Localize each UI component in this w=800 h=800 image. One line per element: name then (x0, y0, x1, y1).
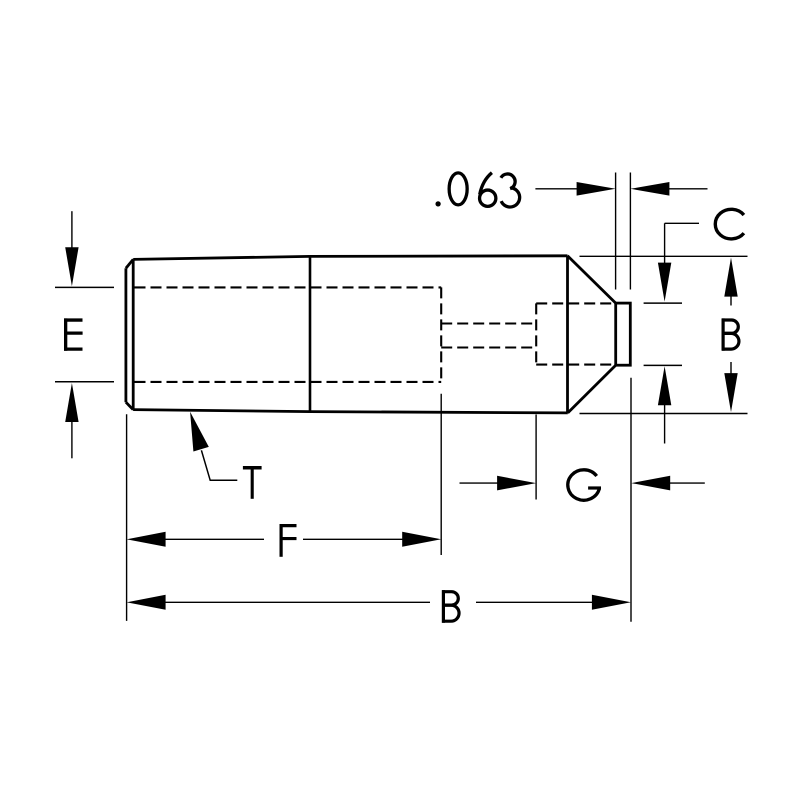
label B bottom stem (442, 590, 445, 623)
label .063 digit 6 bowl (480, 190, 496, 206)
extension line tip right (629, 173, 631, 290)
extension line tip right lower (630, 378, 632, 622)
label E bottom bar (64, 347, 83, 350)
arrowhead B2 right (592, 595, 631, 610)
label G arc (568, 470, 600, 500)
leader C vertical (664, 223, 666, 263)
hidden thread hole end line (440, 287, 442, 382)
tick C bottom (644, 364, 682, 366)
extension line tip left (615, 173, 617, 290)
label .063 digit 6 top stroke (480, 173, 492, 195)
label .063 digit 0 (449, 173, 467, 205)
arrowhead E top (65, 247, 78, 286)
tick E bottom (55, 381, 114, 383)
arrowhead C top (658, 263, 671, 302)
hidden pilot hole bottom line (441, 346, 536, 348)
hidden socket top line (536, 302, 616, 304)
label B bottom bottom bowl (442, 605, 459, 621)
dim line .063 left (535, 188, 577, 190)
dim line B2 left segment (165, 601, 430, 603)
hidden thread hole top line (135, 286, 442, 288)
pin body bottom edge straight segment (310, 412, 568, 413)
hidden thread hole bottom line (135, 381, 442, 383)
pin body bottom-left chamfer (126, 402, 133, 409)
arrowhead T (190, 412, 209, 452)
hidden pilot hole top line (441, 322, 536, 324)
label B bottom top bowl (442, 592, 458, 605)
shaft E bottom (71, 422, 73, 459)
shaft E top (71, 211, 73, 248)
tick C top (644, 302, 682, 304)
arrowhead G left (497, 476, 536, 491)
tip boss rectangle (616, 303, 631, 365)
dim line B2 right segment (476, 601, 593, 603)
arrowhead .063 right (630, 182, 669, 196)
extension line left end (126, 414, 128, 621)
arrowhead E bottom (65, 383, 78, 422)
leader T (201, 450, 237, 480)
hidden socket bottom line (536, 364, 616, 366)
arrowhead B top (724, 258, 737, 297)
arrowhead C bottom (658, 366, 671, 405)
tick E top (55, 286, 114, 288)
arrowhead .063 left (577, 182, 616, 196)
dim line F right segment (303, 538, 403, 540)
shaft B bottom (730, 362, 732, 374)
arrowhead B2 left (127, 595, 166, 610)
dim line G right (670, 482, 705, 484)
shaft B top (730, 297, 732, 306)
extension line socket depth (535, 415, 537, 500)
label T bar (243, 466, 262, 470)
arrowhead F left (127, 532, 166, 547)
label E mid bar (64, 331, 83, 334)
label F top bar (280, 524, 297, 527)
leader C horizontal (665, 222, 699, 224)
chamfer cone top line (568, 256, 616, 303)
label B right bottom bowl (722, 333, 739, 349)
label B right top bowl (722, 320, 738, 333)
chamfer cone bottom line (568, 365, 616, 413)
label .063 period (435, 201, 440, 206)
extension line B top (580, 255, 748, 257)
label E top bar (64, 318, 83, 321)
dim line .063 right (669, 188, 708, 190)
label B right stem (721, 318, 724, 350)
label .063 digit 3 (501, 174, 520, 207)
extension line thread depth (440, 394, 442, 555)
shaft C bottom (664, 405, 666, 444)
pin body top edge straight segment (310, 254, 568, 257)
pin body top edge tapered segment (133, 256, 310, 259)
extension line B bottom (580, 413, 748, 415)
hidden socket left line (535, 303, 537, 364)
pin body top-left chamfer (126, 259, 133, 268)
label G bar (588, 486, 601, 489)
arrowhead F right (402, 532, 441, 547)
arrowhead G right (631, 476, 670, 491)
pin body section junction line (309, 256, 312, 411)
label C (715, 209, 744, 239)
label E stem (64, 318, 67, 350)
label T stem (251, 469, 254, 499)
arrowhead B bottom (724, 373, 737, 412)
label F stem (280, 524, 283, 557)
pin body left inner edge (132, 259, 135, 409)
pin body left outer edge (125, 268, 128, 402)
label F mid bar (280, 537, 297, 540)
dim line G left (460, 482, 499, 484)
dim line F left segment (165, 538, 264, 540)
pin body right end face (566, 256, 569, 413)
pin body bottom edge tapered segment (133, 410, 310, 412)
